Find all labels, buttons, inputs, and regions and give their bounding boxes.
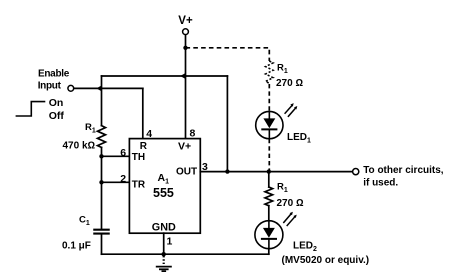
output terminal bbox=[353, 169, 359, 175]
svg-text:if used.: if used. bbox=[363, 177, 398, 188]
node: LED1 branch / output line bbox=[267, 169, 271, 173]
svg-text:R1: R1 bbox=[277, 182, 288, 195]
svg-text:TH: TH bbox=[132, 152, 145, 163]
svg-text:Off: Off bbox=[49, 110, 65, 122]
wire: TH node down to TR node bbox=[101, 156, 103, 182]
svg-text:6: 6 bbox=[120, 147, 126, 159]
LED1 light arrows bbox=[285, 103, 297, 116]
svg-text:(MV5020 or equiv.): (MV5020 or equiv.) bbox=[282, 255, 370, 266]
wire: pin 4 drop bbox=[142, 88, 144, 138]
wire: dashed from upper R1 to LED1 bbox=[268, 84, 270, 111]
LED2 light arrows bbox=[284, 212, 297, 226]
Enable Input terminal bbox=[68, 85, 74, 91]
wire: output line bbox=[200, 171, 352, 173]
svg-text:1: 1 bbox=[167, 236, 173, 248]
resistor R1 (upper, 270 ohm, dashed) bbox=[265, 61, 273, 83]
wire: pin 6 TH bbox=[102, 155, 130, 157]
wire: node down to R1 470k bbox=[101, 76, 103, 126]
capacitor C1 bbox=[94, 230, 108, 234]
svg-text:R1: R1 bbox=[85, 122, 96, 135]
svg-text:8: 8 bbox=[190, 127, 196, 139]
node: V+ / dashed LED1 branch junction bbox=[183, 46, 187, 50]
svg-text:TR: TR bbox=[132, 180, 146, 191]
node: ground junction bbox=[162, 252, 166, 256]
svg-text:270 Ω: 270 Ω bbox=[276, 78, 303, 89]
LED1 bbox=[256, 111, 283, 138]
arrowhead at V+ line crossing bbox=[180, 73, 186, 79]
wire: feedback vertical down to output line bbox=[226, 76, 228, 172]
waveform on/off symbol bbox=[16, 102, 44, 116]
svg-text:LED1: LED1 bbox=[287, 132, 311, 145]
svg-text:R1: R1 bbox=[277, 62, 288, 75]
svg-text:2: 2 bbox=[120, 173, 126, 185]
svg-text:OUT: OUT bbox=[176, 167, 197, 178]
svg-text:LED2: LED2 bbox=[293, 241, 317, 254]
svg-text:V+: V+ bbox=[178, 15, 193, 27]
wire: output line down to lower R1 bbox=[268, 172, 270, 187]
LED2 bbox=[255, 221, 283, 249]
svg-text:0.1 μF: 0.1 μF bbox=[62, 241, 91, 252]
wire: C1 to bottom rail bbox=[101, 235, 103, 255]
svg-text:270 Ω: 270 Ω bbox=[277, 198, 304, 209]
node: feedback / output line bbox=[225, 169, 229, 173]
wire: Enable input to R1 node bbox=[74, 87, 143, 89]
V+ terminal bbox=[183, 29, 189, 35]
wire: V+ vertical down to pin 8 bbox=[185, 35, 187, 139]
wire: lower R1 to LED2 bbox=[268, 206, 270, 221]
wire: R1 bottom to TH node bbox=[101, 147, 103, 156]
wire: pin 2 TR bbox=[102, 181, 130, 183]
wire: pin 1 GND drop bbox=[163, 233, 165, 254]
svg-text:To other circuits,: To other circuits, bbox=[363, 165, 444, 176]
svg-text:Input: Input bbox=[38, 81, 62, 92]
wire: dashed from LED1 to output line bbox=[268, 139, 270, 170]
node: TR junction bbox=[99, 180, 103, 184]
op-amp/timer U1: 555 body bbox=[129, 139, 200, 234]
svg-text:R: R bbox=[140, 141, 148, 152]
svg-text:V+: V+ bbox=[178, 141, 191, 153]
arrowhead at enable node bbox=[96, 85, 102, 91]
node: TH junction bbox=[99, 154, 103, 158]
wire: LED2 to bottom rail bbox=[268, 249, 270, 254]
svg-text:4: 4 bbox=[146, 128, 152, 140]
wire: feedback top horizontal (node to out column) bbox=[102, 75, 228, 77]
ground bbox=[157, 256, 171, 271]
svg-text:470 kΩ: 470 kΩ bbox=[63, 141, 96, 152]
wire: TR node down to C1 bbox=[101, 182, 103, 228]
resistor R1 (lower, 270 ohm) bbox=[265, 187, 273, 206]
svg-text:Enable: Enable bbox=[38, 69, 70, 80]
svg-text:C1: C1 bbox=[79, 215, 90, 228]
svg-text:GND: GND bbox=[152, 222, 176, 234]
resistor R1 470k bbox=[98, 126, 106, 148]
wire: dashed branch from V+ node to upper R1 bbox=[186, 48, 270, 61]
wire: bottom rail bbox=[102, 253, 269, 255]
svg-text:On: On bbox=[49, 97, 64, 109]
svg-text:555: 555 bbox=[153, 186, 174, 200]
